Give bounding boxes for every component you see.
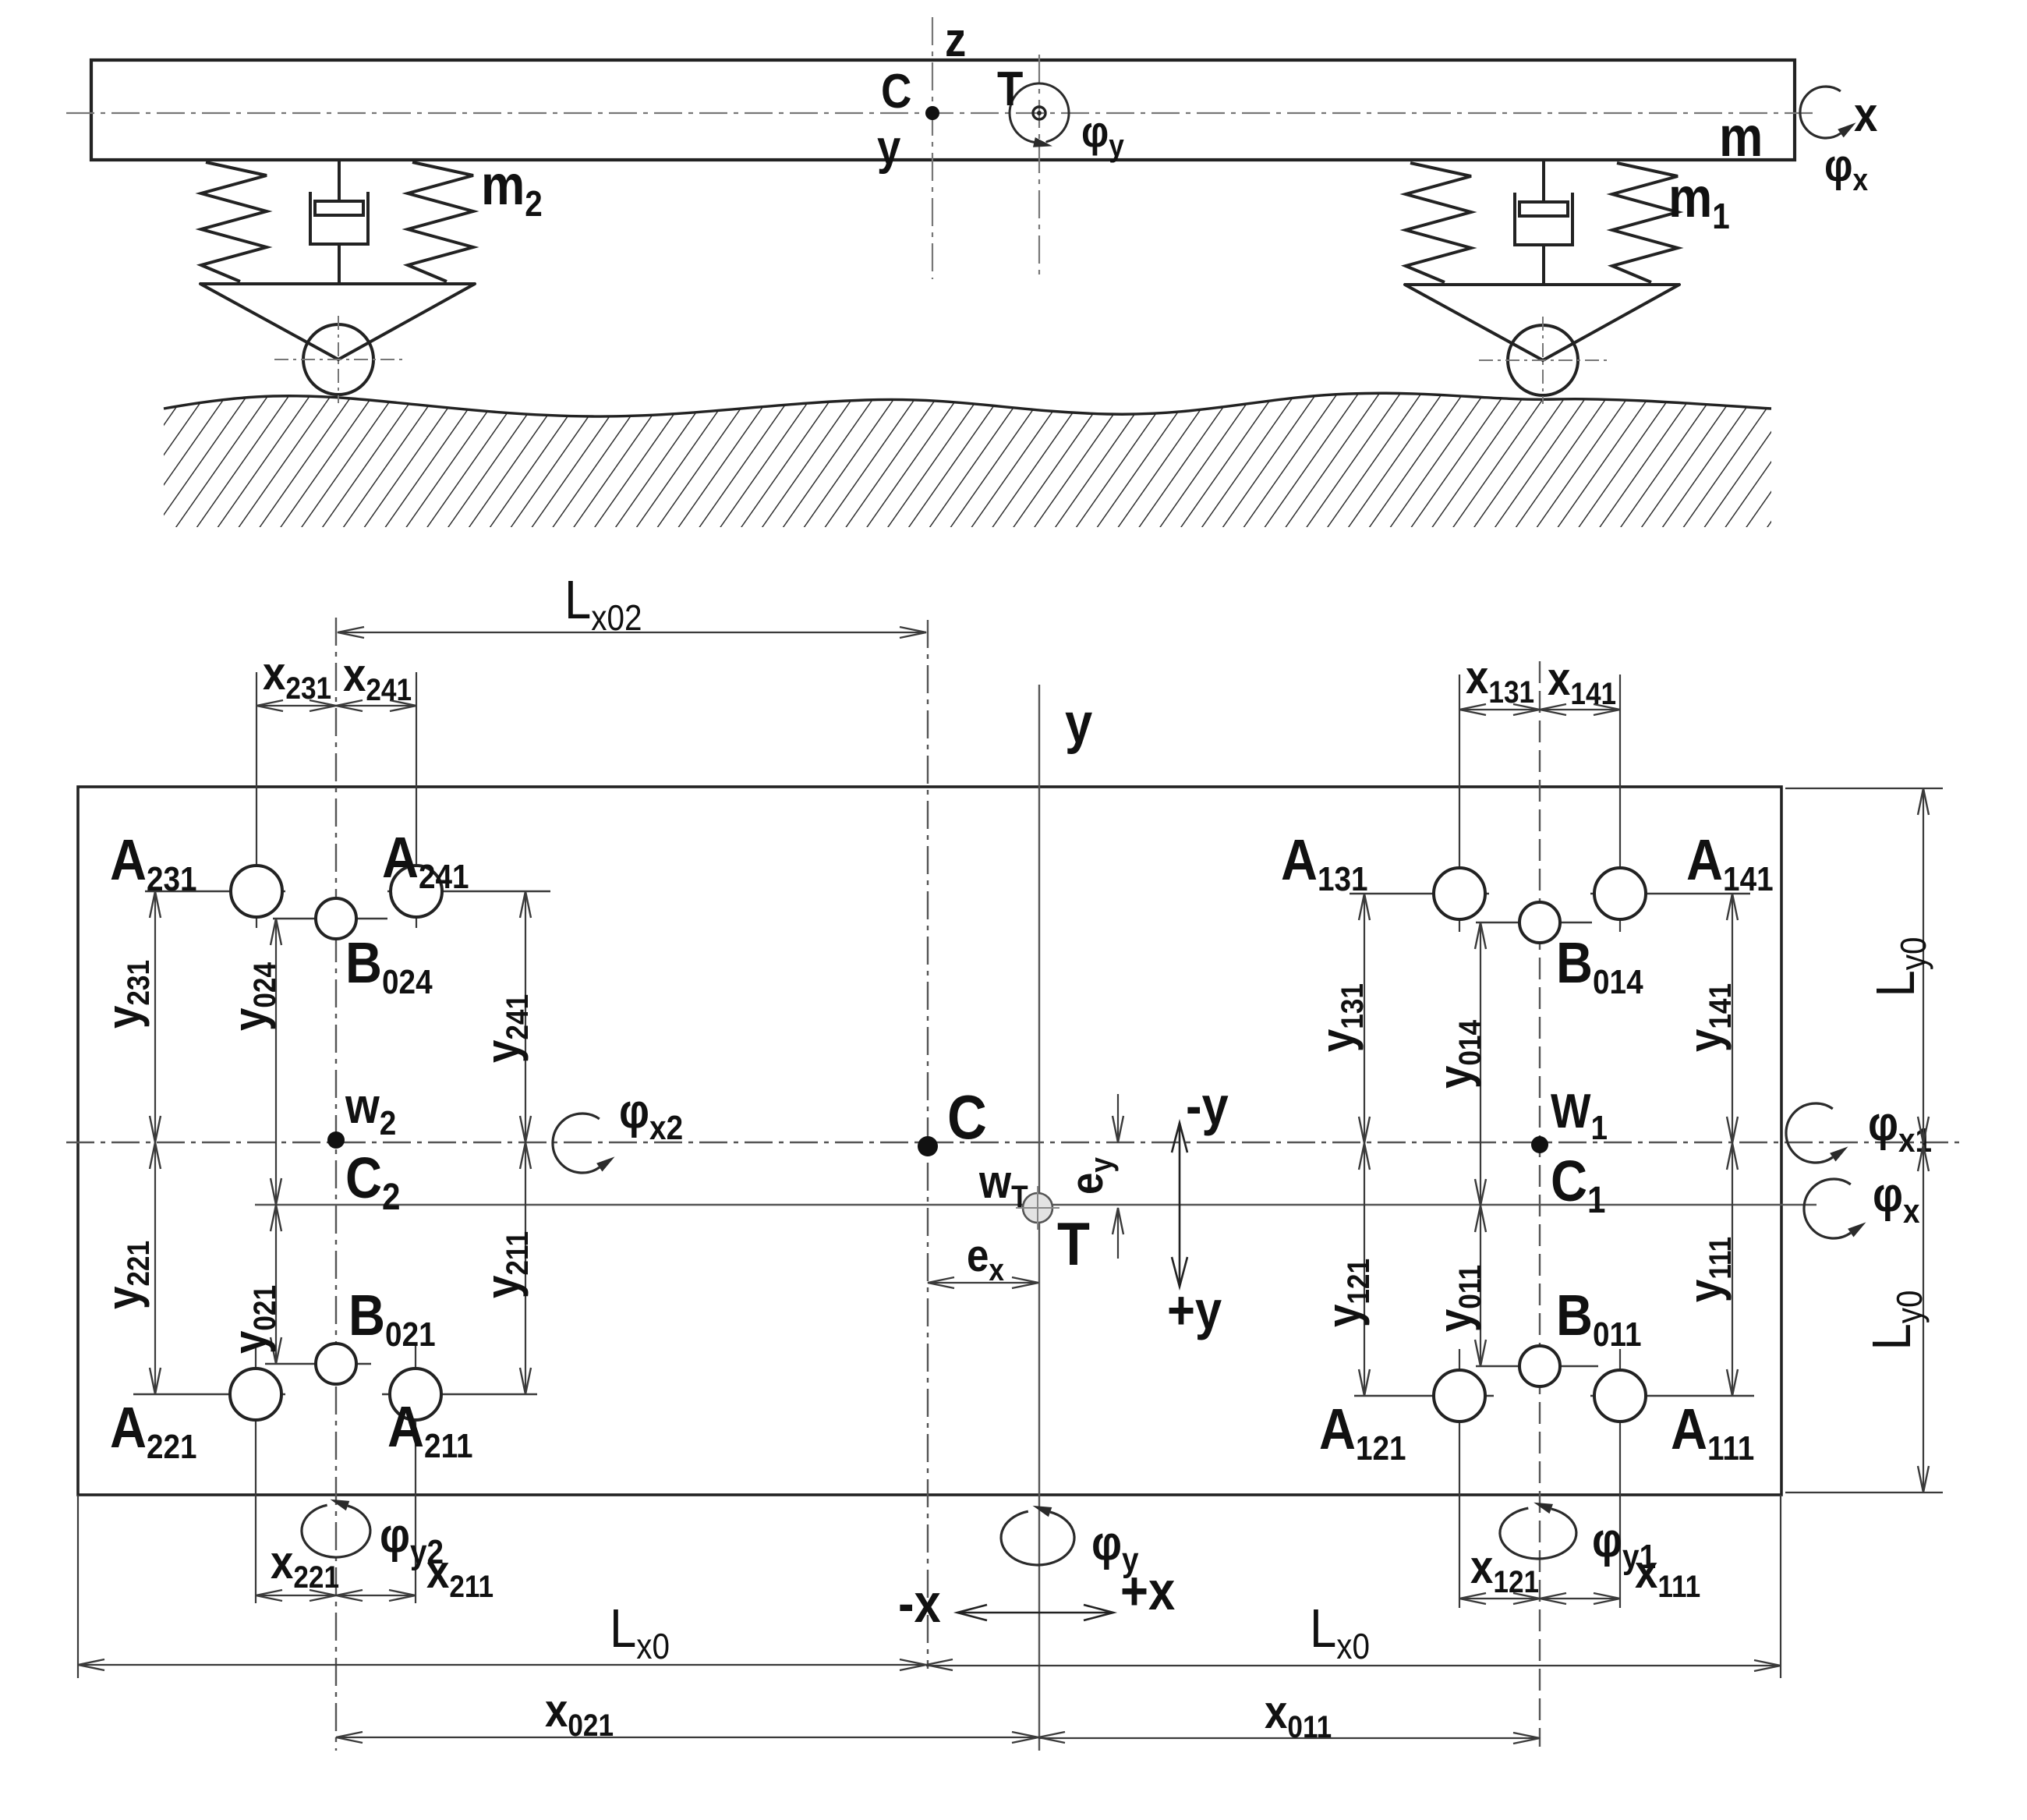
mounting point A131 xyxy=(1350,893,1489,894)
y axis vertical line through T xyxy=(1038,685,1040,1751)
dimension x131 xyxy=(1459,709,1540,710)
dimension x021 xyxy=(336,1737,1038,1738)
point C2 / W2 (module 2 center) xyxy=(327,1131,345,1149)
svg-text:-y: -y xyxy=(1186,1075,1229,1136)
dimension y241 xyxy=(525,891,526,1142)
dimension y111 xyxy=(1732,1143,1733,1396)
dimension x231 xyxy=(256,705,336,706)
T vertical axis (side view) xyxy=(1038,55,1040,281)
ground surface wavy line xyxy=(164,393,1771,416)
horizontal line through T (w_T axis) xyxy=(255,1204,1817,1206)
svg-text:+y: +y xyxy=(1167,1279,1222,1340)
rotation arrow phi_y plan xyxy=(1001,1511,1074,1565)
A231/A221 axis vertical xyxy=(256,672,257,928)
dimension Lx0 right xyxy=(926,1665,1781,1666)
dimension ex xyxy=(928,1282,1038,1284)
plan horizontal centerline through C xyxy=(66,1142,1965,1143)
bogie 2 lower bar xyxy=(200,282,475,285)
reference point B011 xyxy=(1476,1365,1598,1367)
bottom edge extension for Ly0 xyxy=(1785,1492,1943,1493)
svg-text:z: z xyxy=(945,13,966,67)
beam mass m (sprung body, side view) xyxy=(91,60,1795,160)
dimension y121 xyxy=(1364,1143,1365,1396)
spring, right bogie right xyxy=(1612,163,1678,282)
platform rectangle (plan view) xyxy=(78,787,1781,1495)
damper, right bogie xyxy=(1542,161,1545,202)
dimension Lx02 xyxy=(338,632,926,633)
svg-text:y: y xyxy=(877,121,901,175)
mounting point A121 xyxy=(1354,1395,1494,1397)
point T / w_T (plan) xyxy=(1023,1193,1052,1223)
damper, left bogie xyxy=(338,160,341,201)
wheel 1 center marks xyxy=(1479,359,1607,361)
dimension x221 xyxy=(256,1595,336,1596)
rotation arrow phi_x at right beam end xyxy=(1800,87,1841,138)
dimension y011 xyxy=(1480,1206,1481,1366)
top edge extension for Ly0 xyxy=(1785,788,1943,789)
mounting point A231 xyxy=(145,891,285,892)
dimension Lx0 left xyxy=(78,1664,926,1666)
coordinate arrow -x/+x xyxy=(957,1612,1113,1614)
dimension y221 xyxy=(154,1142,156,1394)
dimension y021 xyxy=(275,1205,277,1364)
dimension y141 xyxy=(1732,894,1733,1143)
right edge extension for Lx0 xyxy=(1780,1495,1781,1678)
A241/A211 axis vertical xyxy=(416,672,417,928)
wheel, left bogie xyxy=(303,324,373,395)
z axis xyxy=(932,17,933,279)
rotation arrow phi_y around T xyxy=(1010,83,1069,142)
dimension x241 xyxy=(336,705,416,706)
A131/A121 axis vertical xyxy=(1459,675,1460,932)
mounting point A141 xyxy=(1590,893,1750,894)
module 1 vertical axis (through B01x, W1) xyxy=(1539,661,1541,1747)
dimension y014 xyxy=(1480,922,1481,1206)
svg-text:T: T xyxy=(1057,1209,1090,1278)
dimension x121 xyxy=(1459,1598,1540,1599)
beam centerline xyxy=(66,112,1818,114)
svg-text:C: C xyxy=(881,65,911,119)
spring, left bogie left xyxy=(201,162,267,281)
rotation arrow phi_x1 xyxy=(1786,1103,1833,1163)
ground hatching xyxy=(164,393,1771,527)
dimension y024 xyxy=(275,919,277,1205)
dimension y131 xyxy=(1364,894,1365,1143)
rotation arrow phi_x2 xyxy=(553,1114,600,1173)
svg-text:x: x xyxy=(1854,88,1878,142)
bogie 1 lower bar xyxy=(1405,283,1679,286)
svg-text:y: y xyxy=(1065,692,1093,755)
mounting point A241 xyxy=(387,891,550,892)
mounting point A111 xyxy=(1590,1395,1754,1397)
dimension Ly0 upper xyxy=(1923,788,1924,1143)
left edge extension for Lx0 xyxy=(77,1495,79,1678)
C vertical axis (dash-dot) xyxy=(927,620,929,1669)
svg-text:-x: -x xyxy=(898,1572,941,1634)
dimension x141 xyxy=(1540,709,1620,710)
dimension y231 xyxy=(154,891,156,1142)
mounting point A221 xyxy=(133,1393,285,1395)
dimension x011 xyxy=(1038,1737,1540,1739)
point C (plan) xyxy=(918,1136,938,1156)
spring, left bogie right xyxy=(408,162,473,281)
dimension ey xyxy=(1117,1094,1119,1142)
bogie 1 triangle frame xyxy=(1405,285,1679,360)
rotation arrow phi_y1 xyxy=(1500,1508,1576,1559)
reference point B024 xyxy=(273,918,387,919)
dimension x111 xyxy=(1540,1598,1620,1599)
reference point B021 xyxy=(265,1363,371,1365)
point T with small circle xyxy=(1033,107,1045,119)
module 2 vertical axis (through B02x, C2) xyxy=(335,618,337,1751)
coordinate arrow -y/+y xyxy=(1179,1123,1181,1287)
svg-text:C: C xyxy=(947,1082,987,1152)
dimension x211 xyxy=(336,1595,416,1596)
dimension y211 xyxy=(525,1142,526,1394)
reference point B014 xyxy=(1476,922,1592,923)
wheel 2 center marks xyxy=(274,359,402,360)
svg-text:T: T xyxy=(997,62,1024,116)
A141/A111 axis vertical xyxy=(1619,675,1621,932)
spring, right bogie left xyxy=(1406,163,1471,282)
mounting point A211 xyxy=(382,1393,537,1395)
rotation arrow phi_x plan xyxy=(1804,1179,1851,1238)
dimension Ly0 lower xyxy=(1923,1145,1924,1492)
center of gravity C (side view) xyxy=(925,106,939,120)
bogie 2 triangle frame xyxy=(200,284,475,359)
wheel, right bogie xyxy=(1508,325,1578,395)
svg-text:m: m xyxy=(1719,106,1763,168)
point W1 / C1 (module 1 center) xyxy=(1531,1136,1548,1153)
rotation arrow phi_y2 xyxy=(302,1505,370,1557)
